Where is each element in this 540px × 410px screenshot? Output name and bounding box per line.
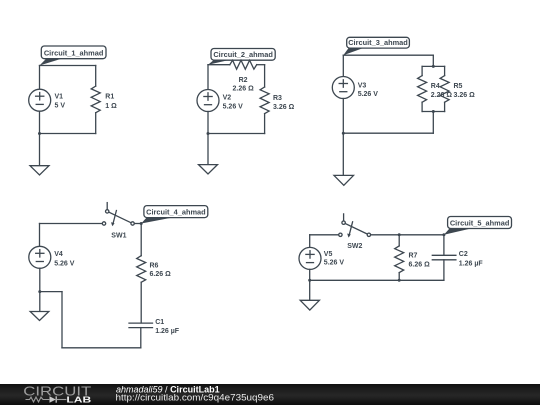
wire (207, 65, 209, 90)
wire (444, 66, 446, 75)
wire (421, 102, 423, 111)
wire (264, 114, 266, 134)
svg-text:Circuit_2_ahmad: Circuit_2_ahmad (213, 50, 273, 59)
svg-text:5.26 V: 5.26 V (324, 260, 345, 267)
svg-text:V4: V4 (54, 251, 63, 258)
svg-text:R7: R7 (409, 253, 418, 260)
wire (257, 64, 265, 66)
svg-text:5.26 V: 5.26 V (223, 104, 244, 111)
wire (140, 328, 142, 348)
resistor R6 (137, 256, 171, 283)
resistor R3 (260, 87, 294, 114)
svg-text:5.26 V: 5.26 V (54, 260, 75, 267)
wire (40, 133, 96, 135)
svg-text:Circuit_4_ahmad: Circuit_4_ahmad (146, 208, 206, 217)
wire (39, 111, 41, 133)
svg-text:R4: R4 (431, 83, 440, 90)
svg-text:V3: V3 (358, 83, 367, 90)
voltage source V1 (29, 89, 66, 111)
svg-text:Circuit_3_ahmad: Circuit_3_ahmad (348, 38, 408, 47)
svg-text:R2: R2 (239, 77, 248, 84)
svg-text:SW1: SW1 (111, 233, 126, 240)
node (398, 233, 401, 236)
svg-text:6.26 Ω: 6.26 Ω (409, 262, 431, 269)
wire (398, 235, 400, 246)
wire (140, 224, 142, 256)
node (38, 290, 41, 293)
wire (140, 282, 142, 323)
ground (199, 165, 218, 174)
svg-text:5.26 V: 5.26 V (358, 91, 379, 98)
wire (134, 223, 141, 225)
wire (208, 133, 265, 135)
voltage source V4 (29, 246, 75, 268)
wire (309, 269, 311, 280)
svg-text:C2: C2 (459, 251, 468, 258)
svg-text:Circuit_1_ahmad: Circuit_1_ahmad (44, 48, 104, 57)
wire (264, 65, 266, 87)
wire (310, 234, 339, 236)
switch SW2 (339, 214, 371, 250)
label Circuit_2_ahmad (208, 49, 275, 65)
svg-text:2.26 Ω: 2.26 Ω (233, 86, 255, 93)
svg-text:R6: R6 (150, 263, 159, 270)
voltage source V3 (332, 77, 378, 99)
svg-text:V1: V1 (55, 93, 64, 100)
wire (342, 99, 344, 134)
resistor R4 (418, 76, 453, 103)
wire (208, 64, 230, 66)
switch SW1 (102, 203, 134, 240)
wire (422, 111, 445, 113)
wire (207, 112, 209, 134)
svg-text:V2: V2 (223, 94, 232, 101)
node (140, 222, 143, 225)
wire (343, 54, 433, 56)
svg-text:R1: R1 (105, 93, 114, 100)
svg-text:6.26 Ω: 6.26 Ω (150, 271, 172, 278)
wire (39, 134, 41, 166)
wire (39, 66, 41, 90)
resistor R1 (91, 86, 117, 113)
node (342, 132, 345, 135)
resistor R5 (440, 76, 475, 103)
voltage source V5 (299, 247, 344, 269)
ground (334, 175, 354, 185)
wire (39, 224, 41, 247)
wire (95, 66, 97, 87)
node (432, 65, 435, 68)
wire (309, 280, 311, 300)
svg-text:1 Ω: 1 Ω (105, 103, 117, 110)
wire (432, 55, 434, 66)
svg-text:1.26 µF: 1.26 µF (155, 328, 180, 335)
wire (443, 260, 445, 281)
svg-text:R3: R3 (273, 95, 282, 102)
label Circuit_3_ahmad (343, 37, 409, 55)
wire (62, 347, 141, 349)
svg-text:LAB: LAB (66, 395, 91, 404)
node (442, 233, 445, 236)
wire (421, 66, 423, 75)
label Circuit_1_ahmad (40, 46, 107, 66)
ground (300, 300, 319, 310)
wire (39, 292, 41, 312)
svg-text:3.26 Ω: 3.26 Ω (454, 92, 476, 99)
svg-text:http://circuitlab.com/c9q4e735: http://circuitlab.com/c9q4e735uq9e6 (116, 392, 275, 403)
svg-text:3.26 Ω: 3.26 Ω (273, 104, 295, 111)
wire (39, 268, 41, 291)
svg-text:1.26 µF: 1.26 µF (459, 260, 484, 267)
wire (309, 235, 311, 248)
svg-text:Circuit_5_ahmad: Circuit_5_ahmad (450, 219, 510, 228)
label Circuit_4_ahmad (141, 206, 208, 224)
wire (371, 234, 444, 236)
ground (30, 312, 49, 321)
wire (40, 291, 62, 293)
voltage source V2 (197, 90, 243, 112)
resistor R7 (395, 246, 430, 273)
node (207, 132, 210, 135)
wire (342, 55, 344, 76)
capacitor C1 (129, 319, 180, 335)
wire (443, 235, 445, 255)
node (398, 279, 401, 282)
wire (61, 292, 63, 348)
label Circuit_5_ahmad (444, 217, 512, 235)
node (432, 110, 435, 113)
svg-text:5 V: 5 V (55, 103, 66, 110)
wire (422, 65, 445, 67)
svg-text:V5: V5 (324, 251, 333, 258)
svg-text:SW2: SW2 (347, 243, 362, 250)
wire (207, 134, 209, 165)
wire (398, 273, 400, 281)
capacitor C2 (432, 251, 483, 267)
wire (343, 132, 433, 134)
svg-text:C1: C1 (155, 319, 164, 326)
wire (432, 112, 434, 134)
wire (95, 113, 97, 134)
node (308, 279, 311, 282)
wire (40, 223, 103, 225)
resistor R2 (230, 60, 257, 92)
wire (342, 133, 344, 175)
wire (444, 102, 446, 111)
footer title text (116, 384, 275, 403)
logo CIRCUIT LAB (23, 383, 92, 404)
wire (310, 279, 444, 281)
svg-text:R5: R5 (454, 83, 463, 90)
ground (30, 166, 49, 175)
node (38, 132, 41, 135)
wire (40, 65, 96, 67)
